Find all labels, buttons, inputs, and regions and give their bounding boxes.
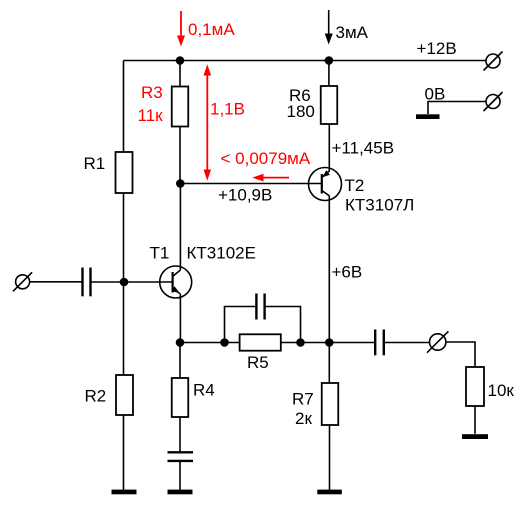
svg-text:< 0,0079мА: < 0,0079мА	[221, 149, 311, 168]
node R5 right	[296, 338, 305, 347]
svg-text:0В: 0В	[425, 85, 446, 104]
wire C3 to ground	[179, 461, 181, 490]
node T2 collector row	[325, 338, 334, 347]
terminal +12V	[484, 52, 503, 71]
svg-text:10к: 10к	[488, 381, 515, 400]
transistor T2 КТ3107Л	[309, 168, 342, 201]
resistor R4	[172, 378, 189, 417]
svg-text:0,1мА: 0,1мА	[188, 20, 235, 39]
svg-text:R5: R5	[247, 353, 269, 372]
node base divider	[176, 179, 185, 188]
measure arrow 1,1В	[204, 64, 212, 180]
wire T2 collector down	[328, 196, 330, 343]
resistor R1	[116, 152, 133, 193]
svg-text:КТ3102Е: КТ3102Е	[187, 244, 256, 263]
node top rail / R3	[176, 56, 185, 65]
svg-text:R7: R7	[292, 389, 314, 408]
wire C1 to T1 base	[91, 281, 173, 283]
wire R1 to R2	[123, 193, 125, 375]
svg-text:Т1: Т1	[150, 244, 170, 263]
current arrow 0,1mA	[177, 11, 185, 47]
terminal 0V	[484, 92, 503, 111]
ground under R7	[317, 490, 342, 495]
ground under R2	[112, 490, 137, 495]
svg-text:+12В: +12В	[417, 39, 457, 58]
svg-text:R2: R2	[85, 387, 107, 406]
svg-text:+11,45В: +11,45В	[332, 139, 395, 158]
capacitor C3 bypass	[168, 452, 194, 461]
wire T2 collector to R7	[328, 343, 330, 384]
wire C4 to output terminal	[384, 342, 430, 344]
wire emitter row	[180, 342, 375, 344]
current arrow base T2	[252, 174, 289, 182]
wire 0V to ground	[428, 102, 486, 115]
wire R4 to C3	[179, 417, 181, 452]
svg-text:+6В: +6В	[332, 263, 363, 282]
capacitor C2 feedback	[256, 294, 264, 320]
svg-text:Т2: Т2	[345, 176, 365, 195]
resistor R6	[321, 86, 338, 124]
ground under C3	[168, 490, 193, 495]
node input / divider	[120, 278, 129, 287]
wire output terminal to load	[446, 342, 475, 367]
capacitor C1 input	[83, 268, 91, 297]
transistor T1 КТ3102Е	[160, 266, 192, 298]
resistor R5	[240, 334, 281, 350]
wire left rail top	[123, 61, 125, 153]
node R5 left	[220, 338, 229, 347]
terminal output	[427, 331, 448, 352]
wire R3 to T1 collector	[179, 184, 181, 271]
ground for 0V	[416, 114, 440, 119]
wire R3 to base node	[179, 127, 181, 184]
wire top supply rail	[124, 60, 487, 62]
capacitor C4 output	[375, 330, 384, 356]
svg-text:R3: R3	[141, 83, 163, 102]
wire rail to R3	[179, 61, 181, 87]
svg-text:КТ3107Л: КТ3107Л	[345, 196, 414, 215]
wire R2 to ground	[123, 415, 125, 490]
wire R7 to ground	[329, 425, 331, 490]
terminal input	[13, 272, 32, 291]
wire load to ground	[474, 406, 476, 434]
wire emitter to R4	[179, 343, 181, 379]
ground under load	[462, 434, 488, 439]
svg-text:R4: R4	[193, 381, 215, 400]
wire input to C1	[30, 281, 83, 283]
svg-text:180: 180	[287, 102, 315, 121]
wire C2 riser right	[265, 307, 301, 343]
node emitter	[176, 338, 185, 347]
svg-text:+10,9В: +10,9В	[218, 186, 272, 205]
wire rail to R6	[328, 61, 330, 87]
svg-text:11к: 11к	[138, 106, 164, 125]
resistor R2	[116, 375, 133, 415]
node top rail / R6	[325, 56, 334, 65]
resistor R3	[172, 87, 189, 127]
svg-text:2к: 2к	[295, 409, 312, 428]
svg-text:R1: R1	[84, 154, 106, 173]
wire T1 emitter down	[179, 294, 181, 343]
svg-text:3мА: 3мА	[336, 23, 369, 42]
svg-text:1,1В: 1,1В	[210, 100, 245, 119]
wire base T2	[180, 183, 321, 185]
wire C2 riser left	[225, 307, 257, 343]
wire R6 to T2 emitter	[328, 124, 330, 172]
current arrow 3mA	[325, 10, 333, 45]
resistor R7	[322, 383, 339, 425]
resistor 10к load	[466, 367, 484, 406]
